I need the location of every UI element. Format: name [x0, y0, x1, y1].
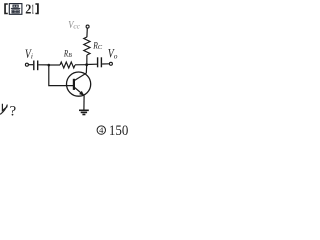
- svg-text:o: o: [114, 51, 118, 60]
- label Vi: [25, 47, 33, 61]
- wire Rb to node B: [75, 64, 87, 66]
- input terminal Vi: [25, 63, 28, 66]
- transistor base bar: [73, 79, 75, 90]
- output terminal Vo: [109, 62, 112, 65]
- transistor collector line: [74, 73, 86, 81]
- emitter arrowhead: [79, 91, 84, 96]
- wire node A down to base: [49, 65, 74, 86]
- svg-text:C: C: [98, 44, 103, 51]
- resistor Rc: [84, 37, 90, 55]
- transistor Q1 circle: [67, 72, 91, 96]
- capacitor C2: [98, 57, 102, 67]
- ground: [79, 110, 89, 114]
- answer marker 4 circled: [97, 126, 105, 134]
- bracket 【: [4, 3, 8, 14]
- partial text 少: [0, 104, 7, 115]
- wire node A to Rb: [49, 64, 60, 66]
- svg-text:cc: cc: [73, 22, 80, 30]
- svg-text:150: 150: [109, 123, 128, 139]
- figure title 【圖 21】: [4, 2, 39, 17]
- label Vcc: [68, 20, 80, 31]
- wire Vi to C1: [28, 64, 33, 66]
- svg-text:4: 4: [99, 125, 104, 135]
- glyph 圖: [9, 4, 22, 15]
- wire collector to node B: [85, 65, 87, 74]
- svg-text:B: B: [68, 53, 72, 59]
- wire Rc to node B: [86, 55, 88, 65]
- Vcc terminal: [86, 25, 89, 28]
- bracket 】: [35, 3, 38, 14]
- capacitor C1: [34, 61, 38, 71]
- node A junction: [48, 64, 51, 67]
- svg-text:?: ?: [10, 103, 17, 119]
- transistor emitter line: [74, 87, 84, 96]
- label Rb: [63, 49, 72, 59]
- wire Vcc to Rc: [86, 28, 88, 37]
- svg-text:i: i: [31, 52, 33, 60]
- wire node B to C2: [87, 63, 97, 65]
- svg-text:1: 1: [32, 2, 34, 17]
- svg-text:2: 2: [25, 2, 31, 17]
- wire C2 to Vo: [102, 63, 109, 65]
- label Vo: [108, 45, 118, 60]
- label Rc: [93, 41, 103, 52]
- node B junction: [85, 63, 88, 66]
- resistor Rb: [60, 62, 75, 68]
- wire C1 to node A: [38, 64, 49, 66]
- wire emitter to ground: [83, 96, 85, 111]
